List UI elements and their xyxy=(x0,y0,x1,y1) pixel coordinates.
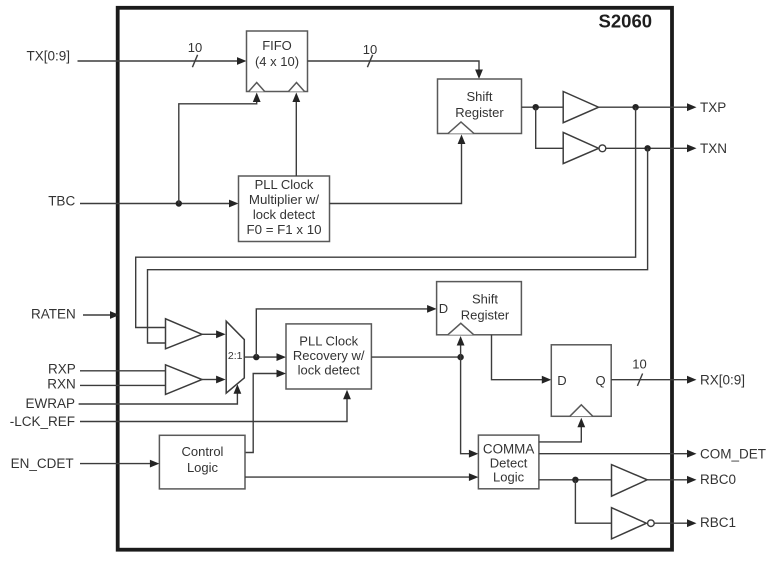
port label TBC xyxy=(48,194,75,209)
svg-text:10: 10 xyxy=(632,357,646,372)
node mux output junction xyxy=(253,354,259,360)
svg-text:-LCK_REF: -LCK_REF xyxy=(10,414,75,429)
wire branch to TXN inverter xyxy=(536,107,564,148)
svg-text:PLL Clock: PLL Clock xyxy=(299,334,358,349)
wire RX[0:9] output bus xyxy=(611,376,696,384)
block output latch D/Q xyxy=(551,345,611,417)
block COMMA Detect Logic xyxy=(478,435,539,489)
port label RXN xyxy=(47,376,76,391)
port label RBC0 xyxy=(700,472,736,487)
svg-text:Control: Control xyxy=(182,444,224,459)
node TBC branch junction xyxy=(176,200,182,206)
svg-text:10: 10 xyxy=(188,40,202,55)
wire recovered clock to shift register clock xyxy=(457,336,465,357)
svg-text:TBC: TBC xyxy=(48,194,75,209)
svg-text:F0 = F1 x 10: F0 = F1 x 10 xyxy=(246,222,321,237)
svg-text:RATEN: RATEN xyxy=(31,307,76,322)
output latch clock triangle xyxy=(570,405,593,417)
FIFO write clock triangle xyxy=(249,83,265,92)
svg-text:RXN: RXN xyxy=(47,376,76,391)
port label TXN xyxy=(700,141,727,156)
chip boundary box S2060 xyxy=(118,8,672,550)
wire Control Logic to PLL recovery enable xyxy=(245,370,286,453)
wire RBC0 output xyxy=(647,476,696,484)
svg-text:COMMA: COMMA xyxy=(483,442,534,457)
svg-text:RXP: RXP xyxy=(48,362,76,377)
wire TXN output xyxy=(606,144,697,152)
node RBC branch junction xyxy=(572,477,578,483)
port label RXP xyxy=(48,362,76,377)
wire COM_DET output xyxy=(539,450,697,458)
buffer RBC0 driver xyxy=(612,465,648,497)
svg-text:Register: Register xyxy=(461,307,510,322)
wire recovered clock to COMMA detect xyxy=(461,357,479,458)
wire branch to RBC1 inverter xyxy=(575,480,611,523)
block Control Logic xyxy=(159,435,245,489)
wire FIFO output bus to Shift Register xyxy=(308,61,483,79)
port label TXP xyxy=(700,100,726,115)
wire Shift Register output xyxy=(522,106,564,108)
svg-text:Multiplier w/: Multiplier w/ xyxy=(249,192,319,207)
svg-text:2:1: 2:1 xyxy=(228,350,243,362)
svg-text:RX[0:9]: RX[0:9] xyxy=(700,373,745,388)
wire EWRAP select input xyxy=(79,384,242,404)
svg-text:D: D xyxy=(557,373,566,388)
svg-text:D: D xyxy=(439,301,448,316)
wire -LCK_REF input xyxy=(80,390,351,422)
wire mux output to shift register D input xyxy=(256,305,436,357)
wire RXN input xyxy=(80,384,166,386)
svg-text:TX[0:9]: TX[0:9] xyxy=(26,49,70,64)
buffer loopback receiver xyxy=(166,319,203,349)
svg-text:Logic: Logic xyxy=(493,470,525,485)
node TXN feedback junction xyxy=(644,145,650,151)
wire mux output to PLL recovery xyxy=(244,353,286,361)
wire shift register to output latch D xyxy=(492,335,552,384)
svg-text:EN_CDET: EN_CDET xyxy=(11,456,74,471)
wire TX[0:9] bus to FIFO xyxy=(78,57,247,65)
svg-text:(4 x 10): (4 x 10) xyxy=(255,54,299,69)
Shift Register transmit clock triangle xyxy=(448,122,474,134)
port label RX[0:9] xyxy=(700,373,745,388)
buffer RXP/RXN receiver xyxy=(166,365,203,395)
wire PLL recovery output xyxy=(371,356,460,358)
wire RXP input xyxy=(80,370,166,372)
svg-text:Recovery w/: Recovery w/ xyxy=(293,348,365,363)
block PLL Clock Multiplier xyxy=(239,176,330,242)
svg-text:Detect: Detect xyxy=(490,456,528,471)
wire Control Logic to COMMA detect xyxy=(245,473,478,481)
wire RBC clock line xyxy=(539,479,612,481)
svg-text:Logic: Logic xyxy=(187,460,219,475)
wire TXP loopback to receive mux xyxy=(136,107,636,327)
wire RBC1 output xyxy=(654,519,696,527)
svg-text:Shift: Shift xyxy=(472,292,498,307)
port label RBC1 xyxy=(700,515,736,530)
port label EN_CDET xyxy=(11,456,74,471)
FIFO read clock triangle xyxy=(289,83,305,92)
svg-text:FIFO: FIFO xyxy=(262,38,292,53)
block Shift Register (transmit) xyxy=(438,79,522,134)
svg-text:TXN: TXN xyxy=(700,141,727,156)
wire RX buffer to mux input 0 xyxy=(202,376,226,384)
bus width 10 marker on RX output xyxy=(632,357,646,386)
wire RATEN input xyxy=(83,311,120,319)
wire TXP output xyxy=(599,103,697,111)
node TXP feedback junction xyxy=(632,104,638,110)
port label -LCK_REF xyxy=(10,414,75,429)
wire COMMA detect to latch clock xyxy=(539,418,585,442)
wire EN_CDET input xyxy=(80,460,159,468)
block Shift Register (receive) xyxy=(437,282,522,335)
port label RATEN xyxy=(31,307,76,322)
block FIFO (4 x 10) xyxy=(247,31,308,92)
wire loopback buffer to mux input 1 xyxy=(202,330,226,338)
node recovered clock junction xyxy=(457,354,463,360)
port label EWRAP xyxy=(25,396,75,411)
node shift-register output junction xyxy=(533,104,539,110)
bus width 10 marker on FIFO output xyxy=(363,42,377,67)
svg-text:PLL Clock: PLL Clock xyxy=(255,177,314,192)
inverter RBC1 driver xyxy=(612,508,655,539)
svg-text:Q: Q xyxy=(595,373,605,388)
svg-text:COM_DET: COM_DET xyxy=(700,447,766,462)
block PLL Clock Recovery xyxy=(286,324,371,389)
receive shift register clock triangle xyxy=(448,323,474,335)
svg-text:Shift: Shift xyxy=(466,89,492,104)
svg-text:TXP: TXP xyxy=(700,100,726,115)
wire PLL multiplier to FIFO read clock xyxy=(292,93,300,177)
svg-text:10: 10 xyxy=(363,42,377,57)
svg-text:EWRAP: EWRAP xyxy=(25,396,75,411)
wire PLL multiplier to shift-register clock xyxy=(330,135,466,204)
wire TXN loopback to receive mux xyxy=(148,148,648,343)
wire TBC branch to FIFO write clock xyxy=(179,93,261,204)
inverter TXN output driver xyxy=(563,132,606,163)
port label TX[0:9] xyxy=(26,49,70,64)
svg-text:Register: Register xyxy=(455,105,504,120)
port label COM_DET xyxy=(700,447,766,462)
bus width 10 marker on TX input xyxy=(188,40,202,67)
wire TBC input xyxy=(80,200,239,208)
chip title S2060 xyxy=(599,11,653,32)
svg-text:RBC1: RBC1 xyxy=(700,515,736,530)
svg-text:lock detect: lock detect xyxy=(253,207,316,222)
svg-text:lock detect: lock detect xyxy=(298,362,361,377)
buffer TXP output driver xyxy=(563,92,598,123)
mux 2:1 receive select xyxy=(226,321,244,393)
svg-text:S2060: S2060 xyxy=(599,11,653,32)
svg-text:RBC0: RBC0 xyxy=(700,472,736,487)
